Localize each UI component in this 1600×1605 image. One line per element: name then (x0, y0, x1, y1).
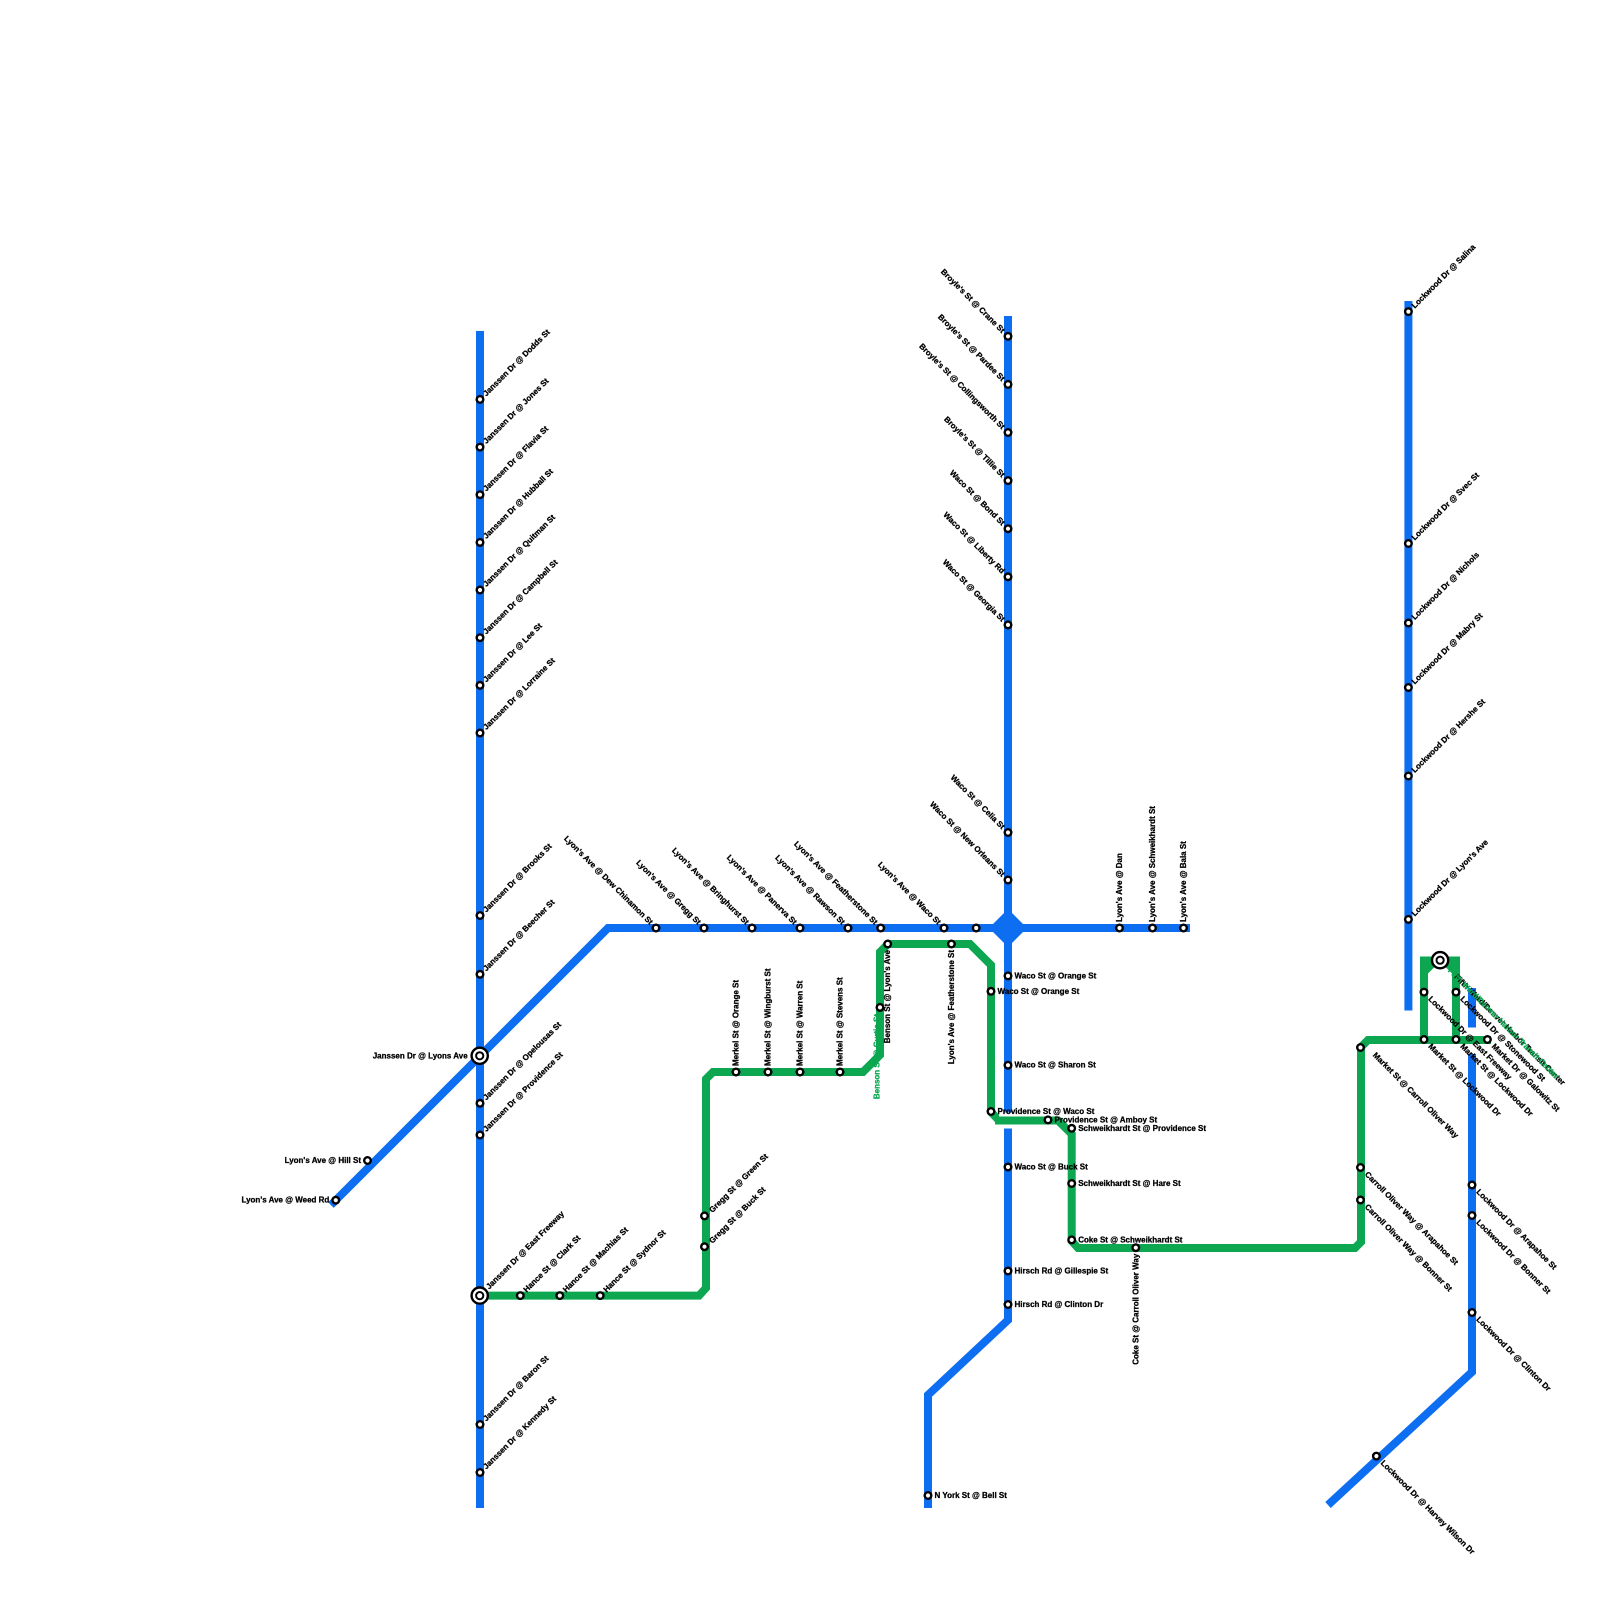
svg-text:Coke St @ Carroll Oliver Way: Coke St @ Carroll Oliver Way (1131, 1253, 1140, 1365)
svg-text:Benson St @ Curtis St: Benson St @ Curtis St (873, 1014, 882, 1099)
svg-text:Merkel St @ Warren St: Merkel St @ Warren St (796, 980, 805, 1066)
svg-text:Janssen Dr @ Lyons Ave: Janssen Dr @ Lyons Ave (373, 1051, 468, 1060)
svg-text:Hirsch Rd @ Gillespie St: Hirsch Rd @ Gillespie St (1015, 1267, 1109, 1276)
svg-text:Merkel St @ Orange St: Merkel St @ Orange St (732, 980, 741, 1066)
svg-text:Benson St @ Lyon's Ave: Benson St @ Lyon's Ave (883, 949, 892, 1043)
svg-text:Waco St @ Buck St: Waco St @ Buck St (1015, 1163, 1089, 1172)
svg-text:Hirsch Rd @ Clinton Dr: Hirsch Rd @ Clinton Dr (1015, 1300, 1104, 1309)
svg-text:Lyon's Ave @ Hill St: Lyon's Ave @ Hill St (285, 1156, 362, 1165)
svg-text:Waco St @ Sharon St: Waco St @ Sharon St (1015, 1061, 1097, 1070)
svg-text:Merkel St @ Stevens St: Merkel St @ Stevens St (836, 977, 845, 1066)
svg-text:Merkel St @ Wingburst St: Merkel St @ Wingburst St (764, 968, 773, 1066)
svg-text:Lyon's Ave @ Weed Rd: Lyon's Ave @ Weed Rd (242, 1196, 330, 1205)
svg-text:Lyon's Ave @ Featherstone St: Lyon's Ave @ Featherstone St (947, 950, 956, 1065)
svg-text:Schweikhardt St @ Providence S: Schweikhardt St @ Providence St (1078, 1124, 1206, 1133)
svg-text:Coke St @ Schweikhardt St: Coke St @ Schweikhardt St (1078, 1235, 1183, 1244)
svg-text:Waco St @ Orange St: Waco St @ Orange St (998, 987, 1080, 996)
svg-text:Lyon's Ave @ Bala St: Lyon's Ave @ Bala St (1179, 841, 1188, 922)
svg-text:N York St @ Bell St: N York St @ Bell St (935, 1491, 1008, 1500)
svg-text:Lyon's Ave @ Schweikhardt St: Lyon's Ave @ Schweikhardt St (1148, 806, 1157, 922)
svg-text:Waco St @ Orange St: Waco St @ Orange St (1015, 971, 1097, 980)
svg-text:Schweikhardt St @ Hare St: Schweikhardt St @ Hare St (1078, 1179, 1181, 1188)
svg-text:Lyon's Ave @ Dan: Lyon's Ave @ Dan (1115, 853, 1124, 922)
